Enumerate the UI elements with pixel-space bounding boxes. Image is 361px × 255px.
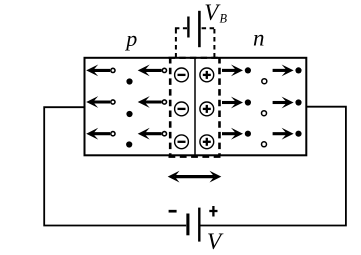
depletion region dashed boundary left edge <box>169 57 172 156</box>
hole circle n region 1 <box>262 79 267 84</box>
dashed wire vertical to barrier battery VB right <box>213 27 215 57</box>
hole drift arrow p row3 right <box>138 128 167 140</box>
hole circle n region 2 <box>262 111 267 116</box>
dashed wire horizontal to barrier battery VB left <box>175 27 187 29</box>
electron dot p region 1 <box>126 78 132 84</box>
pn junction line <box>194 59 196 156</box>
electron drift arrow n row2 right <box>273 97 302 109</box>
electron drift arrow n row1 right <box>273 65 302 77</box>
electron drift arrow n row3 left <box>222 128 251 140</box>
acceptor ion circled minus 3 <box>175 135 189 149</box>
hole drift arrow p row1 left <box>86 65 115 77</box>
battery V positive plate <box>198 208 200 242</box>
hole circle n region 3 <box>262 142 267 147</box>
electron dot p region 3 <box>126 141 132 147</box>
semiconductor body rectangle <box>85 58 307 156</box>
hole drift arrow p row1 right <box>138 65 167 77</box>
depletion region dashed boundary top edge <box>169 57 222 59</box>
depletion region dashed boundary bottom edge <box>169 155 222 158</box>
donor ion circled plus 3 <box>200 135 214 149</box>
donor ion circled plus 1 <box>200 68 214 82</box>
acceptor ion circled minus 2 <box>175 102 189 116</box>
svg-text:B: B <box>220 11 228 25</box>
donor ion circled plus 2 <box>200 102 214 116</box>
svg-text:p: p <box>124 26 137 51</box>
depletion region dashed boundary right edge <box>218 57 221 156</box>
label minus sign of battery V <box>169 210 177 213</box>
dashed wire horizontal to barrier battery VB right <box>202 27 215 29</box>
label plus sign of battery V <box>209 210 217 212</box>
battery VB negative plate <box>187 17 189 38</box>
wire from n side to battery V positive terminal <box>200 107 346 226</box>
electron drift arrow n row1 left <box>222 65 251 77</box>
depletion width double-headed arrow <box>168 171 222 183</box>
svg-text:V: V <box>207 229 224 255</box>
hole drift arrow p row2 right <box>138 96 167 108</box>
hole drift arrow p row2 left <box>86 96 115 108</box>
dashed wire vertical to barrier battery VB left <box>175 27 177 57</box>
acceptor ion circled minus 1 <box>175 68 189 82</box>
battery VB positive plate <box>198 11 201 47</box>
electron drift arrow n row3 right <box>273 128 302 140</box>
hole drift arrow p row3 left <box>86 128 115 140</box>
battery V negative plate <box>186 214 189 236</box>
svg-text:n: n <box>253 26 265 51</box>
electron dot p region 2 <box>126 111 132 117</box>
electron drift arrow n row2 left <box>222 97 251 109</box>
wire from p side to battery V negative terminal <box>44 107 186 225</box>
